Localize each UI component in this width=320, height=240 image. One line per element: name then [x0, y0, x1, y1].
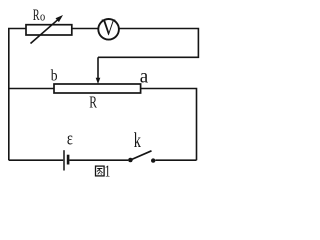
- wire: voltmeter right, down, left to slider: [98, 29, 198, 58]
- battery long thin plate: [63, 150, 65, 170]
- svg-text:1: 1: [105, 163, 111, 180]
- battery short thick plate: [67, 155, 70, 165]
- voltmeter U1: [98, 19, 119, 40]
- svg-text:a: a: [140, 66, 149, 88]
- switch blade: [130, 151, 151, 160]
- svg-text:R: R: [33, 6, 40, 24]
- switch left contact dot: [128, 158, 133, 163]
- switch right contact dot: [151, 158, 155, 162]
- wire: battery to switch: [69, 159, 128, 161]
- wire: a terminal right + down to bottom: [141, 89, 197, 161]
- svg-text:R: R: [89, 93, 97, 112]
- wire: switch to bottom-right corner: [155, 159, 196, 161]
- bottom wire: left segment to battery: [9, 159, 63, 161]
- caption glyph TU (vector box character): [96, 166, 105, 176]
- wire: R0 to voltmeter: [72, 28, 98, 30]
- wire: left vertical + top-left corner to R0: [9, 29, 26, 161]
- rheostat arrow through R0: [31, 18, 61, 44]
- svg-text:o: o: [40, 9, 45, 23]
- svg-text:ε: ε: [67, 128, 73, 149]
- resistor R body: [54, 84, 141, 93]
- resistor R0 body: [26, 25, 72, 35]
- wire: b terminal to left vertical: [9, 88, 54, 90]
- svg-text:b: b: [51, 68, 58, 85]
- svg-text:k: k: [134, 128, 141, 151]
- slider arrow onto R: [97, 57, 99, 79]
- svg-text:V: V: [102, 15, 117, 41]
